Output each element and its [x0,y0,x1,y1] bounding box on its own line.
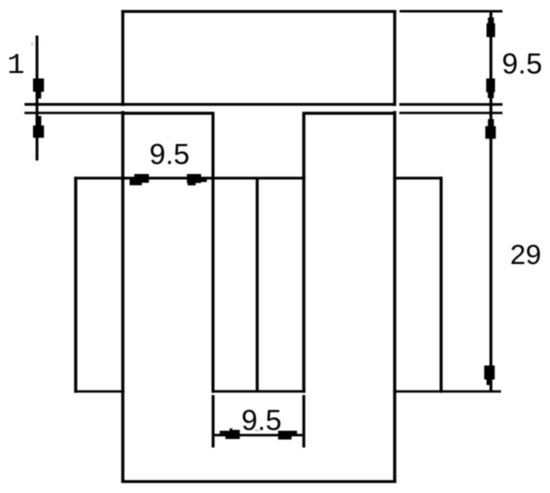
svg-text:9.5: 9.5 [241,405,281,437]
svg-text:9.5: 9.5 [149,139,189,171]
svg-text:9.5: 9.5 [502,48,542,80]
svg-text:29: 29 [510,239,541,270]
svg-text:1: 1 [7,49,24,82]
